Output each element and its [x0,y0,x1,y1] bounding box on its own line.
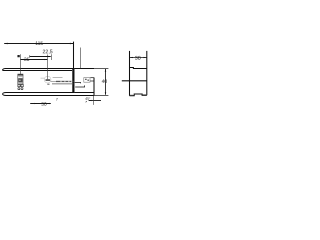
internal line y=81 right [90,80,94,82]
switch box [84,78,90,83]
screw 1 slot [45,79,50,81]
side view right edge [146,51,148,95]
lens shade dark band [56,81,73,82]
svg-text:30: 30 [41,102,47,108]
terminal screw left [18,88,20,90]
arrow 40 down [105,92,106,95]
internal line y=77.7 right [90,77,94,79]
svg-text:40: 40 [102,79,108,85]
dim 22,5 right extension line [51,54,53,60]
switch box contacts [85,79,87,80]
svg-text:115: 115 [35,41,43,47]
arrow 40 up [105,69,106,72]
lamp front view: top outer edge [2,69,94,71]
side view bottom left foot [130,95,133,96]
side view left edge [129,51,131,96]
side view top edge jogged [130,68,147,69]
arrow 35 right [44,59,47,60]
side view bottom right foot [142,93,146,96]
arrow 30 bottom left-pointing [47,103,50,104]
ext below right edge [93,96,95,105]
body right edge [93,78,95,96]
lens line y=77.6 [53,77,63,79]
side view bottom stepped edge [130,94,147,96]
arrow 35 left [21,59,24,60]
terminal right [21,84,23,86]
extension line x=47.5 [47,55,49,80]
terminal left [18,84,20,86]
bulb socket cap [18,74,24,76]
internal shelf line y=87 with tick [75,85,84,87]
arrow 45 leader [89,100,92,101]
lens line y=83.9 [52,83,73,85]
screw 1 circle [44,76,51,83]
arrow 30 bottom right-pointing [34,103,37,104]
svg-text:45°: 45° [85,97,91,101]
thin tick left of screw1 [41,77,45,79]
arrow side 30 left [130,57,133,58]
side view dim 30 line [130,57,147,59]
screw 1 lower mark [47,84,49,85]
dim 22,5 line [30,56,51,58]
lamp front view: bottom outer edge [3,94,95,96]
thin link line right of screw1 [51,80,56,82]
svg-text:30: 30 [135,56,141,62]
svg-text:7: 7 [56,98,58,102]
extension line x=20.35 [20,54,22,74]
lamp front view: top inner lens line [2,69,72,71]
lamp front view: bottom inner lens line [3,93,95,94]
arrow 115 left [4,43,7,44]
dim 35 line [20,59,47,61]
ext bottom edge to 40 dim [94,95,108,97]
arrow 22,5 right [48,56,51,57]
side view mid line [122,80,147,82]
arrow side 30 right [143,57,146,58]
arrow 115 right [70,43,73,44]
bulb socket body [18,75,23,84]
rib right line / extension vertical [73,42,75,93]
internal shelf line y=82.5 [74,82,80,85]
svg-text:22,5: 22,5 [43,49,53,55]
svg-text:35: 35 [24,57,30,63]
terminal screw right [21,88,23,90]
dim 115 line [4,43,73,45]
dim 40 vertical line [105,69,107,95]
ext top edge to 40 dim [94,68,108,70]
rib left line [71,69,73,93]
dim 22,5 left tick [29,55,31,58]
rib right thin line [74,69,76,93]
dim 45 leader line [89,100,101,102]
tiny mark left of 35 [18,56,19,57]
dim 30 bottom line [30,103,51,105]
extension line x=80.5 [80,48,82,69]
small mark below 45 label [85,101,87,103]
bulb socket inner shade [18,78,22,82]
